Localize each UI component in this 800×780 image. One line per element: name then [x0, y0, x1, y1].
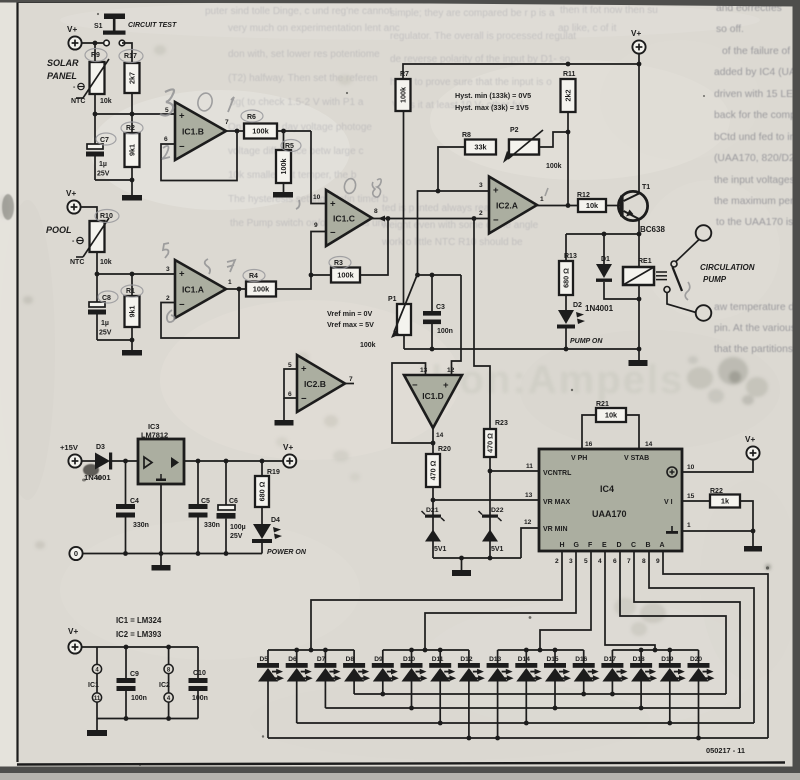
node rail 4 dots	[639, 648, 644, 653]
bus D nodes	[467, 736, 472, 741]
svg-text:330n: 330n	[133, 522, 149, 529]
svg-text:470 Ω: 470 Ω	[486, 433, 495, 453]
capacitor C4 330n	[125, 461, 127, 504]
LED D4 POWER ON	[261, 507, 263, 524]
svg-text:D13: D13	[489, 656, 501, 663]
wire LED bus A	[354, 693, 726, 695]
svg-text:3: 3	[166, 266, 170, 273]
svg-text:IC1.A: IC1.A	[182, 285, 204, 295]
svg-text:C6: C6	[229, 498, 238, 505]
ground symbol zeners	[452, 570, 471, 576]
node D1 bottom	[637, 297, 642, 302]
node C9 bottom	[124, 716, 129, 721]
wire pin9 to bus D	[663, 551, 768, 738]
svg-text:D1: D1	[601, 256, 610, 263]
svg-text:−: −	[179, 300, 185, 311]
schematic frame	[16, 2, 18, 762]
wire D20 anode stub	[698, 682, 700, 739]
wire LED bus B	[325, 707, 740, 709]
wire pin6 to bus A	[620, 551, 726, 694]
svg-text:IC1.D: IC1.D	[422, 391, 443, 401]
capacitor C8 1u 25V	[96, 274, 98, 302]
bus A nodes	[380, 692, 385, 697]
svg-text:−: −	[412, 380, 418, 391]
wire D17 cathode stub	[611, 650, 613, 663]
svg-text:R8: R8	[462, 132, 471, 139]
wire D16 anode stub	[583, 682, 585, 695]
svg-text:R22: R22	[710, 488, 723, 495]
svg-text:D2: D2	[573, 302, 582, 309]
svg-text:5V1: 5V1	[491, 546, 504, 553]
wire pin5 to LED rail3 feed	[540, 551, 591, 650]
wire R6 to node	[277, 130, 311, 132]
node pin1/R22	[751, 529, 756, 534]
wire D19 cathode stub	[669, 650, 671, 663]
svg-text:P2: P2	[510, 127, 519, 134]
node IC3 gnd rail	[159, 551, 164, 556]
wire R9 bottom to node	[94, 94, 96, 114]
resistor R2 9k1	[125, 133, 140, 167]
svg-text:100µ: 100µ	[230, 524, 246, 531]
pencil oval 0	[196, 92, 214, 113]
svg-text:R12: R12	[577, 192, 590, 199]
wire D20 cathode stub	[698, 650, 700, 663]
wire D3 to IC3	[112, 460, 138, 462]
svg-text:12: 12	[524, 519, 532, 526]
wire D11 anode stub	[439, 682, 441, 724]
svg-text:D8: D8	[346, 656, 355, 663]
wire D16 cathode stub	[583, 650, 585, 663]
transistor T1 BC638	[618, 191, 647, 220]
svg-text:T1: T1	[642, 184, 650, 191]
wire IC3 out to V+	[184, 460, 283, 462]
svg-text:H: H	[560, 542, 565, 549]
svg-text:so off.: so off.	[716, 24, 744, 35]
svg-text:100k: 100k	[253, 285, 270, 294]
svg-text:9k1: 9k1	[128, 144, 137, 156]
wire R11 riser	[567, 112, 569, 206]
svg-text:R1: R1	[126, 288, 135, 295]
wire zener ground line	[433, 557, 521, 559]
node C6	[224, 459, 229, 464]
ground solar divider	[122, 195, 142, 201]
relay RE1 coil	[623, 267, 654, 285]
svg-text:CIRCUIT TEST: CIRCUIT TEST	[128, 22, 177, 29]
pencil mark 1 at IC1.B out	[228, 97, 234, 112]
svg-text:POOL: POOL	[46, 225, 72, 235]
node R3 left	[309, 273, 314, 278]
node R2 bottom	[130, 178, 135, 183]
wire LED cathode rail 2	[383, 649, 469, 651]
svg-text:Vref max = 5V: Vref max = 5V	[327, 320, 374, 329]
svg-text:+: +	[301, 364, 307, 375]
wire to IC1.C pin10	[311, 131, 326, 204]
svg-text:R6: R6	[247, 114, 256, 121]
wire signal riser to R23	[474, 219, 490, 430]
wire R20 to D21	[432, 487, 434, 558]
wire D15 anode stub	[554, 682, 556, 709]
svg-text:100n: 100n	[131, 695, 147, 702]
wire IC3 ground	[160, 484, 162, 565]
svg-text:5: 5	[584, 558, 588, 565]
svg-text:−: −	[330, 228, 336, 239]
svg-text:10k: 10k	[100, 98, 112, 105]
resistor R1 9k1	[131, 274, 133, 296]
node rail 1 dots	[294, 648, 299, 653]
svg-text:BC638: BC638	[640, 225, 665, 234]
resistor R7 100k	[396, 79, 411, 111]
page edge dark bands	[0, 0, 800, 7]
svg-text:1µ: 1µ	[101, 320, 109, 327]
svg-text:6: 6	[288, 391, 292, 398]
wire V+ to S1	[82, 42, 104, 44]
svg-text:F: F	[588, 542, 593, 549]
wire emitter rail left	[566, 233, 639, 235]
wire P1 bottom to ground rail	[403, 335, 405, 349]
node R11 top	[566, 62, 571, 67]
thermistor R9 SOLAR NTC 10k	[90, 62, 105, 94]
ink blot near D3	[83, 464, 99, 476]
svg-text:C9: C9	[130, 671, 139, 678]
node VR MAX	[431, 498, 436, 503]
node R6/R5	[281, 129, 286, 134]
wire R7 to P1 (Vref divider)	[403, 111, 405, 304]
node feedback R3	[386, 216, 391, 221]
wire D10 cathode stub	[411, 650, 413, 663]
wire V+ to T1 collector	[638, 54, 640, 194]
svg-text:1µ: 1µ	[99, 161, 107, 168]
svg-text:D4: D4	[271, 517, 280, 524]
svg-text:+: +	[179, 111, 185, 122]
svg-text:P1: P1	[388, 296, 397, 303]
node IC1.B feedback	[235, 129, 240, 134]
svg-text:SOLAR: SOLAR	[47, 58, 79, 68]
svg-text:og( to check 1.5-2 V with P1: og( to check 1.5-2 V with P1 a	[230, 97, 364, 108]
wire D17 anode stub	[611, 682, 613, 695]
svg-text:4: 4	[598, 558, 602, 565]
svg-text:pin. At the various and wh: pin. At the various and wh	[714, 323, 800, 334]
svg-text:14: 14	[436, 432, 444, 439]
svg-text:B: B	[646, 542, 651, 549]
wire VR MAX line	[433, 499, 539, 501]
svg-text:D18: D18	[633, 656, 645, 663]
svg-text:D11: D11	[432, 656, 444, 663]
svg-text:0: 0	[74, 549, 78, 558]
V+ terminal opamp supply	[68, 640, 81, 653]
ground IC2.B	[275, 420, 294, 426]
node C3 bottom	[430, 347, 435, 352]
node IC1.A feedback	[237, 287, 242, 292]
wire IC1.C output line	[372, 218, 489, 220]
wire S1 to R17	[122, 43, 132, 63]
svg-text:(T2) halfway. Then set the ref: (T2) halfway. Then set the referen	[228, 73, 378, 84]
wire D7 anode stub	[324, 682, 326, 709]
svg-text:100k: 100k	[360, 342, 376, 349]
V+ terminal T1	[632, 40, 645, 53]
svg-text:13: 13	[525, 492, 533, 499]
node C3 top	[430, 273, 435, 278]
svg-text:8: 8	[374, 208, 378, 215]
wire node to IC1.A +in	[97, 273, 176, 275]
svg-text:to the UAA170 is 6 V, tha: to the UAA170 is 6 V, tha	[716, 217, 800, 228]
svg-text:2k2: 2k2	[564, 90, 573, 102]
wire LED cathode rail 4	[612, 649, 698, 651]
wire D11 cathode stub	[439, 650, 441, 663]
wire R22 to ground	[740, 501, 753, 546]
wire LED cathode rail 3	[498, 649, 584, 651]
svg-text:C10: C10	[193, 670, 206, 677]
svg-text:bCtd und fed to inputs: bCtd und fed to inputs	[714, 132, 800, 143]
svg-text:IC1 = LM324: IC1 = LM324	[116, 616, 162, 625]
node emitter rail	[637, 232, 642, 237]
svg-text:work o little NTC R10 sho: work o little NTC R10 should be	[381, 237, 523, 248]
svg-text:then it fot now then su: then it fot now then su	[560, 5, 658, 16]
svg-text:The hysteresis settings defin: The hysteresis settings defin timer b	[228, 194, 389, 205]
svg-text:25V: 25V	[99, 330, 112, 337]
diode D3 1N4001	[95, 453, 110, 470]
V+ terminal pool	[67, 200, 80, 213]
wire R17 to R2	[131, 93, 133, 133]
wire C8 to R1 bottom rail	[97, 339, 132, 341]
svg-text:14: 14	[645, 441, 653, 448]
svg-text:C4: C4	[130, 498, 139, 505]
svg-text:680 Ω: 680 Ω	[562, 268, 571, 288]
resistor R13 680	[565, 234, 567, 261]
svg-text:of the failure of the lo: of the failure of the lo	[722, 46, 800, 57]
node R1 top	[130, 272, 135, 277]
op-amp IC1.D (buffer, points down)	[404, 375, 462, 428]
capacitor C10 100n	[197, 647, 199, 678]
svg-text:R10: R10	[100, 213, 113, 220]
op-amp IC1.B	[175, 102, 226, 160]
svg-text:RE1: RE1	[638, 258, 652, 265]
node solar divider	[93, 112, 98, 117]
wire node to IC1.B +in	[95, 113, 176, 115]
resistor R12 10k	[578, 199, 606, 212]
svg-text:very much on experimentation l: very much on experimentation lent anc	[228, 23, 400, 34]
svg-text:R2: R2	[126, 125, 135, 132]
wire P2 to R11 riser	[539, 132, 568, 147]
wire 0V rail	[83, 553, 262, 555]
svg-text:10: 10	[313, 194, 321, 201]
pencil 0 at IC1.C out	[343, 178, 357, 195]
wire VCNTRL line	[490, 470, 539, 472]
svg-text:100k: 100k	[279, 159, 288, 175]
svg-text:16: 16	[585, 441, 593, 448]
node ground stub	[459, 556, 464, 561]
node P2/R11	[566, 130, 571, 135]
svg-text:R11: R11	[563, 71, 576, 78]
svg-text:6: 6	[613, 558, 617, 565]
svg-text:100k: 100k	[337, 271, 354, 280]
svg-text:D22: D22	[491, 507, 504, 514]
wire IC1.B feedback loop	[161, 131, 237, 181]
wire D13 cathode stub	[497, 650, 499, 663]
pencil tick at IC2.A	[545, 188, 548, 196]
node signal to R23	[472, 216, 477, 221]
wire R3 to IC1.C output	[360, 219, 388, 276]
svg-text:POWER ON: POWER ON	[267, 549, 307, 556]
wire emitter to relay	[638, 234, 640, 267]
bus B nodes	[409, 706, 414, 711]
svg-text:UAA170: UAA170	[592, 509, 627, 519]
svg-text:CIRCULATION: CIRCULATION	[700, 263, 755, 272]
svg-text:Hyst. min (133k) = 0V5: Hyst. min (133k) = 0V5	[455, 91, 531, 100]
wire D7 cathode stub	[324, 650, 326, 663]
resistor R17 2k7	[125, 63, 140, 93]
op-amp IC2.B (unused)	[297, 355, 345, 412]
capacitor C5 330n	[197, 461, 199, 504]
potentiometer P1 100k Vref	[397, 304, 411, 335]
node R19	[260, 459, 265, 464]
svg-text:C7: C7	[100, 137, 109, 144]
node D22 ground	[488, 556, 493, 561]
resistor R5 100k	[283, 131, 285, 150]
svg-text:+: +	[330, 199, 336, 210]
wire C7 to R2 bottom rail	[95, 179, 132, 181]
capacitor C3 100n	[431, 275, 433, 311]
resistor R19 680	[261, 461, 263, 476]
svg-text:(UAA170, 820/D21 and: (UAA170, 820/D21 and	[714, 153, 800, 164]
node D1 top	[602, 232, 607, 237]
svg-text:back for the comparator ta: back for the comparator ta	[714, 110, 800, 121]
svg-text:V+: V+	[68, 627, 78, 636]
svg-text:1: 1	[540, 196, 544, 203]
svg-text:+15V: +15V	[60, 443, 79, 452]
wire Vref to IC1.D +in	[452, 275, 462, 375]
wire pin3 node line	[418, 191, 490, 275]
svg-text:D: D	[617, 542, 622, 549]
svg-text:−: −	[301, 394, 307, 405]
wire D12 anode stub	[468, 682, 470, 739]
svg-text:IC1.B: IC1.B	[182, 127, 204, 137]
wire D5 anode stub	[267, 682, 269, 739]
wire D18 anode stub	[640, 682, 642, 709]
svg-text:7: 7	[349, 376, 353, 383]
diode D1 1N4001	[603, 234, 605, 264]
svg-text:D12: D12	[460, 656, 472, 663]
svg-text:D14: D14	[518, 656, 530, 663]
V+ terminal IC4	[746, 446, 759, 459]
node P1 wiper	[415, 273, 420, 278]
svg-text:R23: R23	[495, 420, 508, 427]
pencil 9 squiggle	[205, 259, 210, 274]
pencil J at IC1.C	[296, 200, 300, 209]
svg-text:1k: 1k	[721, 497, 730, 506]
svg-text:R20: R20	[438, 446, 451, 453]
svg-text:2: 2	[479, 210, 483, 217]
svg-text:aw temperature difference: aw temperature difference	[714, 302, 800, 313]
svg-text:R5: R5	[285, 143, 294, 150]
svg-text:1N4001: 1N4001	[585, 304, 614, 313]
svg-text:E: E	[602, 542, 607, 549]
wire R7 top rail to V+	[403, 64, 639, 79]
wire pin2 to LED rail1 feed	[311, 551, 562, 650]
svg-text:V+: V+	[631, 29, 641, 38]
svg-text:S1: S1	[94, 23, 103, 30]
svg-text:3: 3	[569, 558, 573, 565]
pencil 6 at IC1.A	[167, 310, 175, 322]
wire pin7 to bus B	[634, 551, 740, 708]
wire relay to ground rail	[638, 285, 640, 349]
node R11 bottom	[566, 203, 571, 208]
svg-text:C: C	[631, 542, 636, 549]
svg-text:D17: D17	[604, 656, 616, 663]
svg-text:the input voltages of IC4 to: the input voltages of IC4 to	[714, 175, 800, 186]
wire pin4 to LED rail4 feed	[605, 551, 655, 650]
wire LED bus D	[268, 737, 768, 739]
svg-text:15: 15	[687, 493, 695, 500]
zener D21 5V1	[425, 515, 441, 518]
svg-text:5: 5	[288, 362, 292, 369]
resistor R11 2k2	[561, 79, 576, 112]
svg-text:10: 10	[687, 464, 695, 471]
wire D6 cathode stub	[296, 650, 298, 663]
svg-text:V STAB: V STAB	[624, 455, 649, 462]
wire D18 cathode stub	[640, 650, 642, 663]
wire R4 to IC1.C pin9	[276, 232, 326, 290]
svg-text:1N4001: 1N4001	[84, 473, 111, 482]
svg-text:−: −	[493, 215, 499, 226]
svg-text:LM7812: LM7812	[141, 431, 168, 440]
svg-text:A: A	[660, 542, 665, 549]
svg-text:3: 3	[479, 182, 483, 189]
svg-text:V+: V+	[283, 443, 293, 452]
svg-text:R17: R17	[124, 53, 137, 60]
svg-text:V+: V+	[66, 189, 76, 198]
ground symbol IC4	[744, 546, 762, 552]
wire D8 anode stub	[353, 682, 355, 695]
zener D22 5V1	[482, 515, 498, 518]
wire D6 anode stub	[296, 682, 298, 724]
pencil mark 3	[160, 89, 174, 115]
svg-text:D7: D7	[317, 656, 326, 663]
ground symbol relay	[629, 360, 648, 366]
svg-text:Hyst. max (33k) = 1V5: Hyst. max (33k) = 1V5	[455, 103, 529, 112]
svg-text:R21: R21	[596, 401, 609, 408]
svg-text:D5: D5	[260, 656, 269, 663]
svg-text:9: 9	[314, 222, 318, 229]
svg-text:050217 - 11: 050217 - 11	[706, 746, 745, 755]
pencil 8 at IC1.C out	[372, 179, 381, 197]
svg-text:D6: D6	[288, 656, 297, 663]
node V+ rail	[637, 62, 642, 67]
svg-text:R13: R13	[564, 253, 577, 260]
svg-text:C5: C5	[201, 498, 210, 505]
svg-text:D9: D9	[374, 656, 383, 663]
svg-text:10k: 10k	[586, 201, 599, 210]
svg-text:V PH: V PH	[571, 455, 587, 462]
wire IC1.B output	[226, 130, 244, 132]
svg-text:PANEL: PANEL	[47, 71, 77, 81]
svg-text:V I: V I	[664, 499, 673, 506]
wire D14 cathode stub	[525, 650, 527, 663]
wire IC1.A feedback loop	[161, 289, 239, 338]
node D2 bottom	[564, 347, 569, 352]
wire to R9	[94, 43, 96, 62]
svg-text:VR MAX: VR MAX	[543, 499, 571, 506]
svg-text:VCNTRL: VCNTRL	[543, 470, 572, 477]
svg-text:R19: R19	[267, 469, 280, 476]
svg-text:the maximum permissib: the maximum permissib	[714, 196, 800, 207]
node IC1.D out	[431, 441, 436, 446]
node IC2 pin8	[166, 645, 171, 650]
resistor R21 10k	[582, 415, 596, 449]
svg-text:simple; they are compared be r: simple; they are compared be r p is a	[390, 8, 555, 19]
op-amp IC1.C	[326, 190, 372, 246]
IC1 supply pins	[96, 647, 98, 665]
svg-text:−: −	[179, 142, 185, 153]
